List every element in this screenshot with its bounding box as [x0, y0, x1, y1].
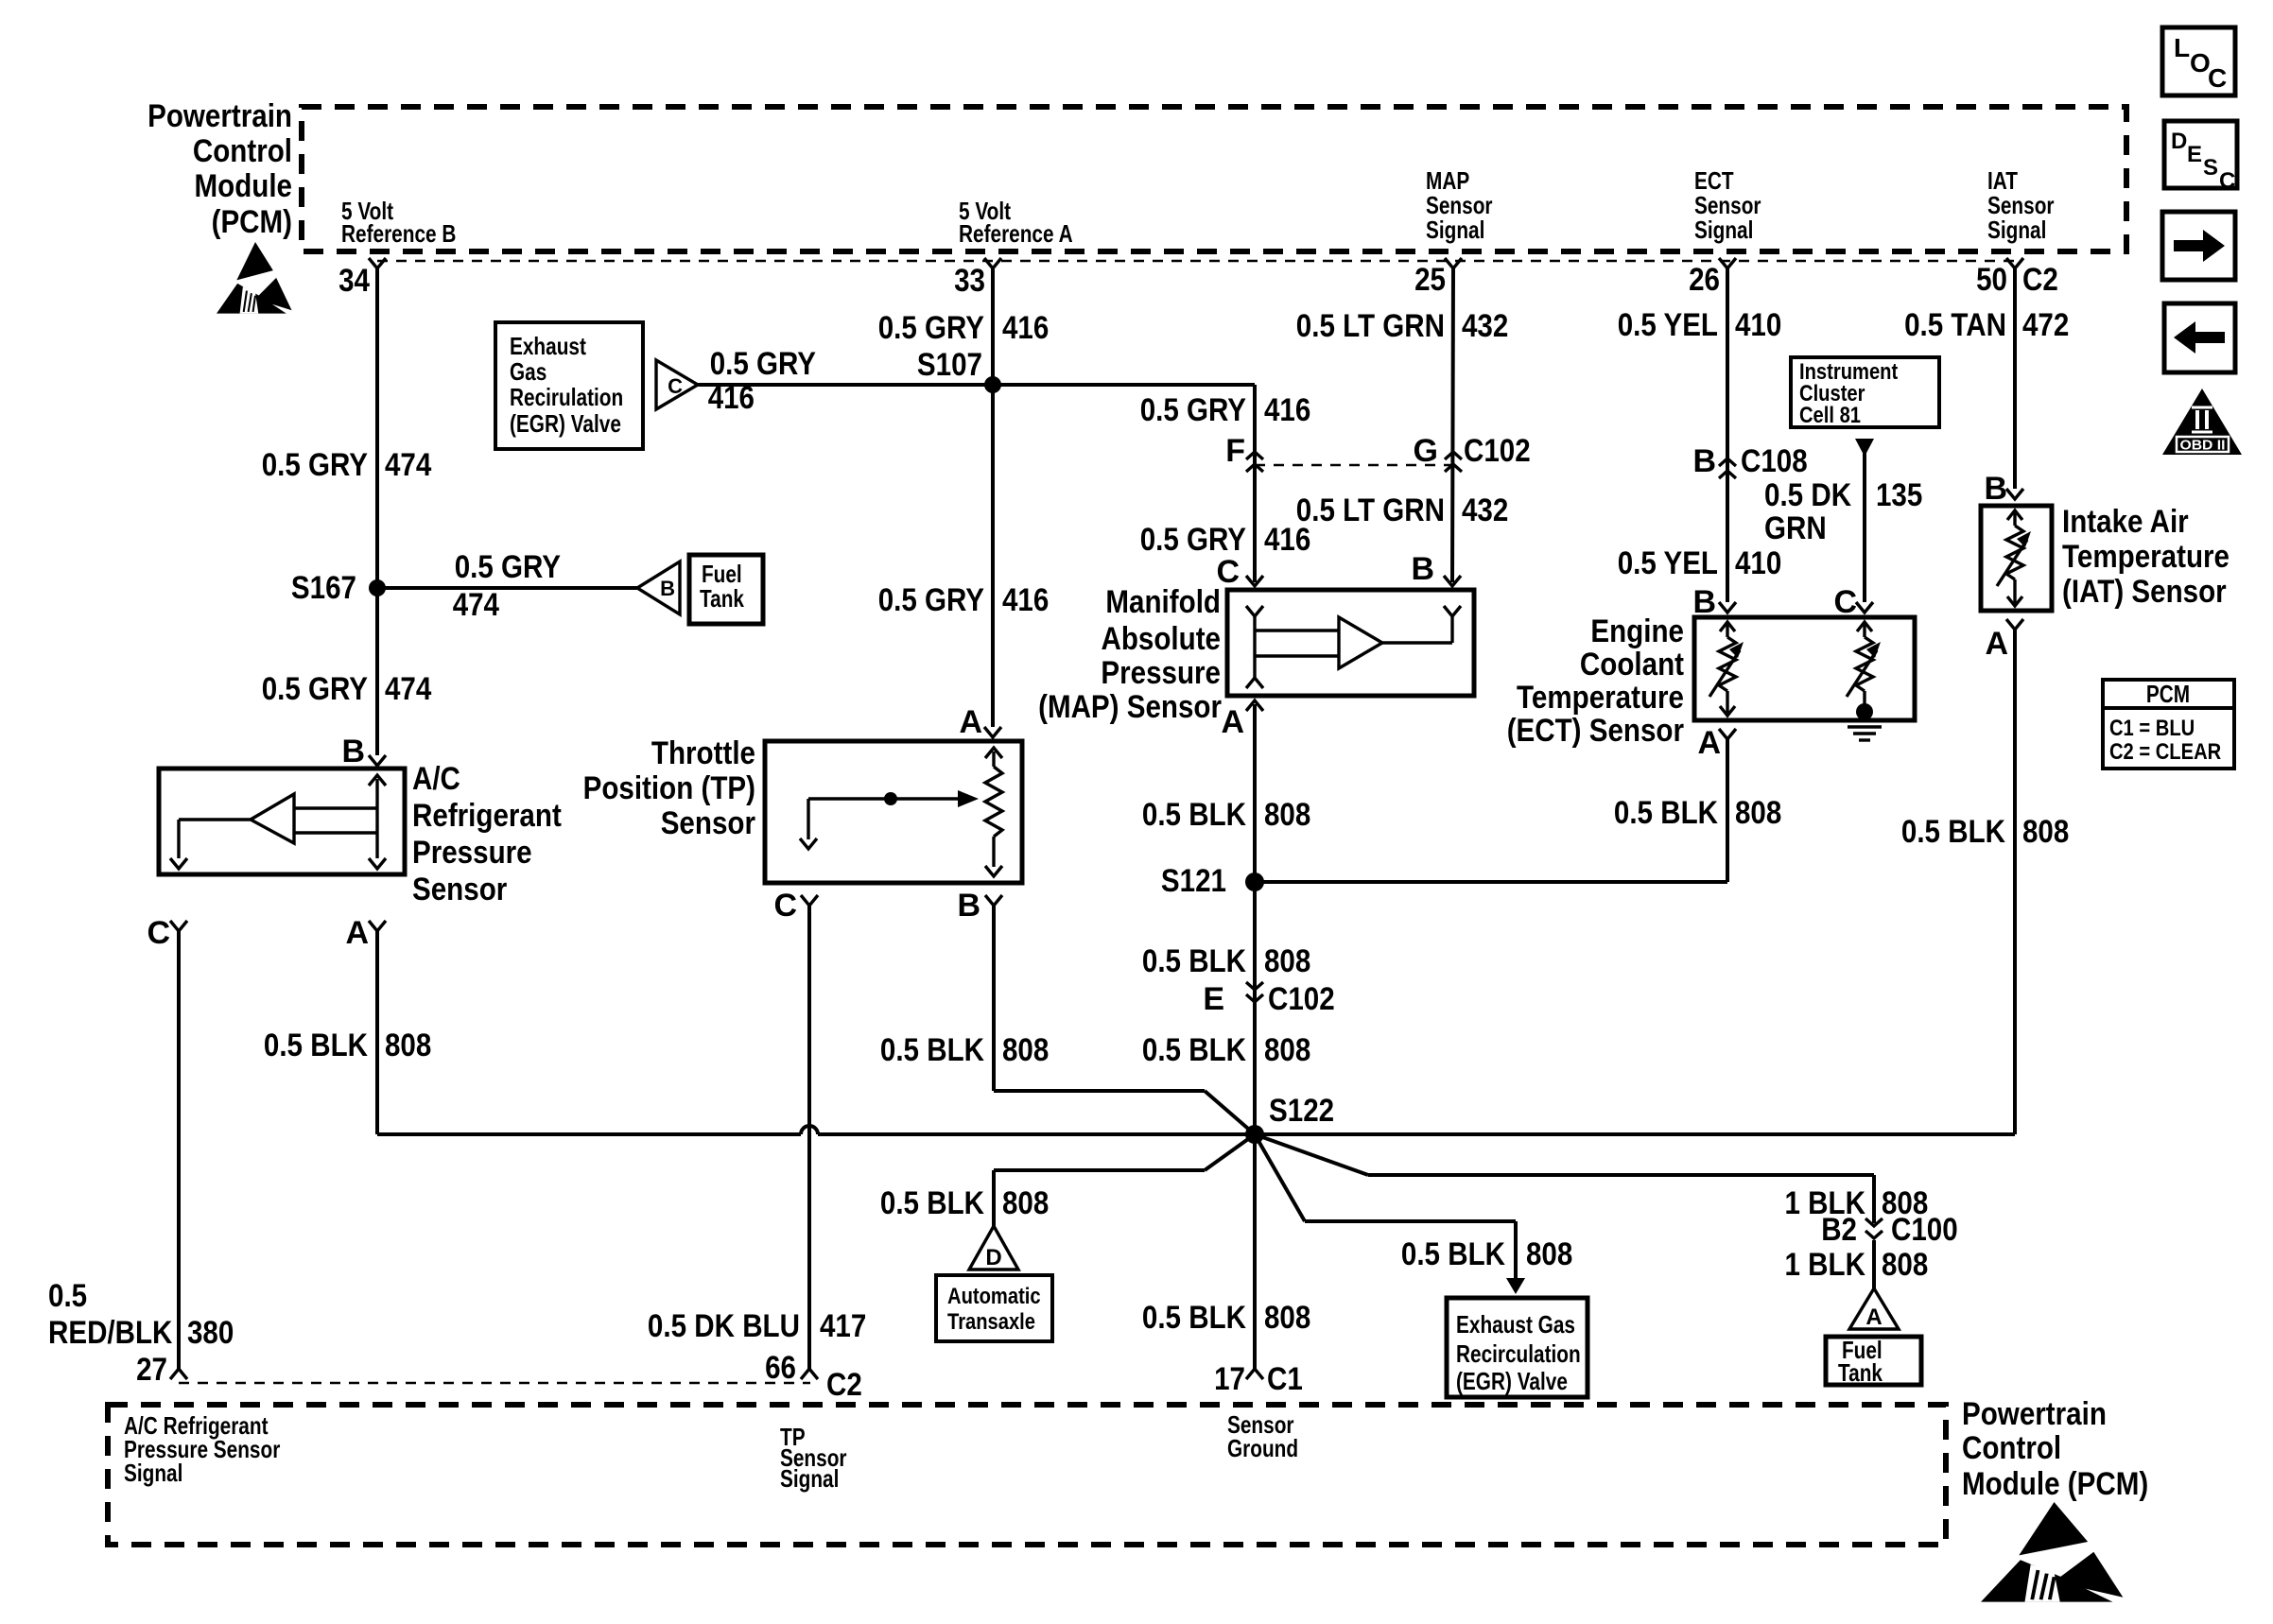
pin C TP sensor [773, 888, 818, 924]
wire S107 branch down to MAP C (0.5 GRY 416) [1253, 385, 1257, 582]
wire label 1 BLK 808 (lower) [1785, 1247, 1929, 1283]
pin 33 (PCM) [954, 258, 1001, 299]
splice S121 [1161, 863, 1264, 899]
wire S121 to ECT A [1255, 880, 1727, 884]
icon DESC box [2164, 121, 2237, 194]
splice S122 [1245, 1093, 1334, 1144]
label Powertrain Control Module (PCM) bottom-right [1962, 1396, 2148, 1502]
svg-text:Sensor: Sensor [412, 872, 507, 907]
off-page connector triangle A (fuel tank) [1849, 1288, 1899, 1330]
wire TP pin C down (0.5 DK BLU 417) [807, 906, 811, 1369]
svg-text:C100: C100 [1891, 1212, 1958, 1248]
net label ECT Sensor Signal [1694, 166, 1761, 244]
wire S122 to EGR valve (0.5 BLK 808) [1255, 1134, 1516, 1280]
svg-text:B: B [1692, 584, 1716, 620]
svg-text:66: 66 [765, 1350, 796, 1386]
connector C108 pin B [1692, 443, 1807, 479]
pin C ECT sensor [1833, 584, 1873, 620]
svg-text:GRN: GRN [1764, 510, 1827, 546]
wire TP pin B down (0.5 BLK 808) [994, 906, 1255, 1134]
wire label 0.5 BLK 808 (S122 to pin17) [1142, 1300, 1310, 1336]
svg-text:S107: S107 [917, 347, 982, 383]
svg-text:0.5 YEL: 0.5 YEL [1618, 545, 1718, 581]
svg-text:0.5 GRY: 0.5 GRY [1140, 522, 1247, 558]
A/C sensor internal circuit [170, 775, 386, 869]
Manifold Absolute Pressure (MAP) Sensor box [1227, 590, 1474, 696]
svg-text:D: D [2171, 129, 2187, 154]
svg-text:(IAT) Sensor: (IAT) Sensor [2062, 574, 2227, 610]
svg-text:0.5 TAN: 0.5 TAN [1904, 307, 2006, 343]
wire pin25 to G to MAP B (0.5 LT GRN 432) [1452, 268, 1453, 582]
svg-text:A/C: A/C [412, 761, 460, 797]
svg-text:B: B [341, 734, 365, 769]
off-page connector triangle B (fuel tank) [637, 561, 680, 614]
wire label 0.5 RED/BLK 380 [48, 1278, 234, 1351]
svg-text:C2 = CLEAR: C2 = CLEAR [2109, 739, 2221, 765]
svg-text:D: D [985, 1245, 1001, 1270]
icon back arrow box [2164, 303, 2235, 372]
connector C102 pin E [1203, 981, 1334, 1017]
svg-text:E: E [1203, 981, 1224, 1017]
Exhaust Gas Recirculation (EGR) Valve box (bottom) [1447, 1298, 1588, 1397]
pin A MAP sensor [1221, 700, 1263, 740]
svg-text:808: 808 [1264, 797, 1310, 833]
svg-text:B: B [660, 577, 675, 600]
svg-text:33: 33 [954, 263, 985, 299]
PCM top pin-row dashed line [377, 260, 2015, 262]
svg-text:B: B [1692, 443, 1716, 479]
svg-text:Engine: Engine [1590, 613, 1684, 649]
svg-text:0.5 GRY: 0.5 GRY [262, 671, 369, 707]
svg-text:Pressure: Pressure [1101, 655, 1221, 691]
wire ECT A down to S121 (0.5 BLK 808) [1726, 739, 1729, 882]
svg-text:Pressure: Pressure [412, 835, 532, 871]
Fuel Tank box (top) [689, 555, 763, 624]
pin 27 (PCM bottom) [136, 1352, 187, 1388]
wire label 0.5 DK BLU 417 [648, 1308, 866, 1344]
svg-text:0.5 BLK: 0.5 BLK [264, 1028, 368, 1063]
label Manifold Absolute Pressure (MAP) Sensor [1038, 584, 1222, 725]
svg-text:Gas: Gas [510, 357, 547, 386]
svg-text:Sensor: Sensor [661, 805, 755, 841]
svg-text:B: B [957, 888, 980, 924]
svg-text:Signal: Signal [780, 1464, 839, 1493]
svg-text:0.5 BLK: 0.5 BLK [1401, 1236, 1505, 1272]
wire 5V Reference A upper (0.5 GRY 416) [991, 268, 995, 727]
label TP Sensor Signal [780, 1423, 847, 1493]
pin 25 (PCM) [1414, 258, 1462, 298]
pin A ECT sensor [1697, 725, 1736, 761]
svg-text:A: A [1985, 626, 2008, 662]
svg-text:S: S [2203, 155, 2218, 181]
svg-text:(EGR) Valve: (EGR) Valve [1456, 1367, 1568, 1395]
svg-text:432: 432 [1462, 308, 1508, 344]
svg-text:Control: Control [193, 133, 292, 169]
svg-text:808: 808 [2022, 814, 2069, 850]
svg-text:0.5 GRY: 0.5 GRY [262, 447, 369, 483]
TP sensor potentiometer [800, 748, 1002, 876]
Automatic Transaxle box [936, 1275, 1052, 1341]
svg-text:Temperature: Temperature [1517, 680, 1684, 716]
svg-text:F: F [1225, 433, 1245, 469]
label Throttle Position (TP) Sensor [583, 735, 755, 841]
svg-text:0.5 LT GRN: 0.5 LT GRN [1296, 492, 1445, 528]
svg-text:0.5: 0.5 [48, 1278, 87, 1314]
svg-text:808: 808 [1264, 1032, 1310, 1068]
svg-text:0.5 GRY: 0.5 GRY [878, 582, 985, 618]
svg-text:432: 432 [1462, 492, 1508, 528]
svg-text:808: 808 [1526, 1236, 1572, 1272]
pin B ECT sensor [1692, 584, 1736, 620]
IAT thermistor [1997, 510, 2031, 606]
svg-text:472: 472 [2022, 307, 2069, 343]
ECT thermistor B-A [1709, 622, 1744, 716]
arrow into EGR valve [1506, 1278, 1525, 1294]
svg-text:135: 135 [1876, 477, 1922, 513]
wire label 0.5 LT GRN 432 (upper) [1296, 308, 1509, 344]
svg-text:Position (TP): Position (TP) [583, 770, 755, 806]
wire 5V Reference B (0.5 GRY 474) [375, 268, 379, 755]
svg-text:380: 380 [187, 1315, 234, 1351]
svg-text:Refrigerant: Refrigerant [412, 798, 562, 834]
wire IAT A down to main ground wire (0.5 BLK 808) [2013, 630, 2017, 1134]
icon OBD II triangle [2162, 389, 2242, 455]
svg-text:C: C [773, 888, 797, 924]
ESD static-sensitive symbol (top PCM) [217, 242, 292, 314]
net label 5 Volt Reference B [341, 197, 456, 248]
svg-text:OBD II: OBD II [2180, 439, 2226, 454]
wire label 0.5 DK GRN / 135 [1764, 477, 1922, 546]
svg-text:Transaxle: Transaxle [947, 1309, 1035, 1335]
svg-text:C1 = BLU: C1 = BLU [2109, 716, 2195, 741]
svg-text:C102: C102 [1268, 981, 1335, 1017]
svg-text:416: 416 [1002, 310, 1049, 346]
wire A/C pin A down (0.5 BLK 808) [375, 931, 379, 1134]
connector C102 in-line dashed link [1255, 464, 1453, 466]
svg-text:A: A [345, 915, 369, 951]
svg-text:50: 50 [1976, 262, 2007, 298]
svg-text:416: 416 [1264, 392, 1310, 428]
svg-text:Exhaust: Exhaust [510, 332, 586, 360]
svg-text:C: C [1833, 584, 1857, 620]
wire label 1 BLK 808 (upper) [1785, 1185, 1929, 1221]
svg-text:0.5 LT GRN: 0.5 LT GRN [1296, 308, 1445, 344]
svg-text:Signal: Signal [124, 1459, 182, 1487]
pin 50 C2 (PCM) [1976, 258, 2058, 298]
svg-text:808: 808 [1735, 795, 1781, 831]
label Sensor Ground [1227, 1410, 1298, 1462]
pin A A/C sensor [345, 915, 386, 951]
splice S167 [291, 570, 386, 606]
svg-text:0.5 GRY: 0.5 GRY [1140, 392, 1247, 428]
wire pin50 to IAT B (0.5 TAN 472) [2013, 268, 2017, 489]
wire label 0.5 GRY 416 (above S107) [878, 310, 1050, 346]
off-page connector triangle D (automatic transaxle) [969, 1226, 1018, 1270]
pin A TP sensor [959, 704, 1001, 740]
svg-text:Manifold: Manifold [1105, 584, 1221, 620]
pin 17 C1 (PCM bottom) [1214, 1361, 1303, 1397]
pin B MAP sensor [1411, 551, 1461, 587]
net label IAT Sensor Signal [1987, 166, 2055, 244]
svg-text:(ECT) Sensor: (ECT) Sensor [1507, 713, 1684, 749]
wire label 0.5 BLK 808 (EGR branch) [1401, 1236, 1572, 1272]
wire label 0.5 BLK 808 (A/C ground wire) [264, 1028, 431, 1063]
wire label 0.5 YEL 410 (upper) [1618, 307, 1782, 343]
svg-text:G: G [1414, 433, 1438, 469]
pin B A/C refrigerant pressure sensor [341, 734, 386, 769]
svg-text:Tank: Tank [1838, 1358, 1883, 1387]
wire label 0.5 GRY 474 (lower) [262, 671, 432, 707]
splice S107 [917, 347, 1001, 393]
pin C A/C sensor [147, 915, 187, 951]
svg-text:0.5 BLK: 0.5 BLK [1142, 1300, 1246, 1336]
svg-text:416: 416 [1002, 582, 1049, 618]
svg-text:A: A [1865, 1304, 1882, 1330]
svg-text:808: 808 [1002, 1185, 1049, 1221]
svg-text:25: 25 [1414, 262, 1446, 298]
svg-text:Module: Module [195, 168, 293, 204]
label Powertrain Control Module (PCM) top-left [147, 98, 292, 240]
svg-text:B: B [1411, 551, 1434, 587]
MAP sensor internal circuit [1246, 606, 1461, 688]
svg-text:Signal: Signal [1426, 216, 1484, 244]
ESD static-sensitive symbol (bottom PCM) [1981, 1502, 2123, 1602]
svg-text:Module (PCM): Module (PCM) [1962, 1466, 2148, 1502]
svg-text:808: 808 [1002, 1032, 1049, 1068]
main sensor-ground horizontal wire [377, 1126, 2015, 1134]
svg-text:Automatic: Automatic [947, 1284, 1041, 1309]
connector C102 pin F [1225, 433, 1263, 472]
net label 5 Volt Reference A [959, 197, 1073, 248]
pin B TP sensor [957, 888, 1002, 924]
svg-text:17: 17 [1214, 1361, 1245, 1397]
svg-text:410: 410 [1735, 307, 1781, 343]
wire label 0.5 BLK 808 (S121 to E) [1142, 943, 1310, 979]
icon LOC box [2162, 27, 2235, 95]
svg-text:0.5 BLK: 0.5 BLK [1142, 1032, 1246, 1068]
svg-text:Control: Control [1962, 1430, 2061, 1466]
svg-text:A: A [1221, 704, 1244, 740]
wire label 0.5 BLK 808 (IAT ground) [1901, 814, 2069, 850]
svg-text:Tank: Tank [700, 584, 744, 613]
svg-text:0.5 GRY: 0.5 GRY [710, 346, 817, 382]
svg-text:808: 808 [1264, 943, 1310, 979]
label Intake Air Temperature (IAT) Sensor [2062, 504, 2230, 610]
icon forward arrow box [2162, 212, 2235, 280]
svg-text:C102: C102 [1464, 433, 1531, 469]
Throttle Position (TP) Sensor box [765, 741, 1022, 883]
svg-text:0.5 BLK: 0.5 BLK [880, 1185, 984, 1221]
svg-text:E: E [2187, 142, 2202, 167]
svg-text:A: A [1697, 725, 1721, 761]
PCM top dashed box [302, 107, 2126, 251]
PCM bottom pin-row dashed line [179, 1382, 810, 1384]
svg-text:26: 26 [1689, 262, 1720, 298]
arrow from instrument cluster [1855, 439, 1874, 457]
svg-text:Reference A: Reference A [959, 219, 1073, 248]
svg-text:808: 808 [1264, 1300, 1310, 1336]
ECT thermistor C with ground [1847, 622, 1881, 708]
svg-text:B: B [1984, 471, 2007, 507]
svg-text:416: 416 [708, 380, 755, 416]
Fuel Tank box (bottom) [1826, 1336, 1921, 1387]
label A/C Refrigerant Pressure Sensor Signal [124, 1411, 280, 1487]
wire EGR to S107 (0.5 GRY 416) [698, 383, 1255, 387]
svg-text:34: 34 [338, 263, 370, 299]
svg-text:C2: C2 [826, 1367, 862, 1403]
wire label 0.5 BLK 808 (transaxle branch) [880, 1185, 1049, 1221]
wire label 0.5 BLK 808 (ECT ground) [1614, 795, 1781, 831]
svg-text:Powertrain: Powertrain [1962, 1396, 2107, 1432]
wire label 0.5 TAN 472 [1904, 307, 2069, 343]
wire S167 to Fuel Tank (0.5 GRY 474) [377, 586, 637, 590]
wire label 0.5 BLK 808 (E to S122) [1142, 1032, 1310, 1068]
svg-text:0.5 BLK: 0.5 BLK [1142, 797, 1246, 833]
svg-text:Powertrain: Powertrain [147, 98, 292, 134]
label A/C Refrigerant Pressure Sensor [412, 761, 562, 907]
svg-text:(PCM): (PCM) [212, 204, 292, 240]
pin 34 (PCM) [338, 258, 386, 299]
svg-text:Absolute: Absolute [1102, 621, 1222, 657]
wire label 0.5 GRY 474 (upper) [262, 447, 432, 483]
wire instrument cluster to ECT C (0.5 DK GRN 135) [1863, 452, 1866, 602]
connector C102 pin G [1414, 433, 1531, 472]
svg-text:PCM: PCM [2146, 680, 2190, 708]
svg-text:27: 27 [136, 1352, 167, 1388]
svg-text:C1: C1 [1267, 1361, 1303, 1397]
wire S122 to fuel tank (1 BLK 808) [1255, 1134, 1874, 1288]
pin B IAT sensor [1984, 471, 2023, 507]
svg-text:C2: C2 [2022, 262, 2058, 298]
svg-text:C: C [2208, 63, 2227, 93]
svg-text:808: 808 [385, 1028, 431, 1063]
wire label 0.5 BLK 808 (MAP to S121) [1142, 797, 1310, 833]
wire A/C pin C down (0.5 RED/BLK 380) [177, 931, 181, 1369]
svg-text:Cell 81: Cell 81 [1799, 403, 1861, 428]
svg-text:C: C [668, 374, 683, 398]
Intake Air Temperature (IAT) Sensor box [1981, 506, 2052, 611]
svg-text:Temperature: Temperature [2062, 539, 2230, 575]
svg-text:0.5 DK BLU: 0.5 DK BLU [648, 1308, 800, 1344]
ECT internal ground [1848, 703, 1882, 740]
svg-text:Throttle: Throttle [651, 735, 755, 771]
Instrument Cluster Cell 81 box [1791, 357, 1939, 428]
connector C100 pin B2 [1821, 1212, 1958, 1248]
wire label 0.5 GRY 416 (above MAP C) [1140, 522, 1311, 558]
wire label 0.5 GRY 416 (below S107) [878, 582, 1050, 618]
svg-text:Ground: Ground [1227, 1434, 1298, 1462]
svg-text:474: 474 [453, 587, 499, 623]
svg-text:410: 410 [1735, 545, 1781, 581]
svg-text:C: C [147, 915, 170, 951]
svg-text:Reference B: Reference B [341, 219, 456, 248]
net label MAP Sensor Signal [1426, 166, 1493, 244]
wire S122 to automatic transaxle (0.5 BLK 808) [994, 1134, 1255, 1226]
svg-text:0.5 DK: 0.5 DK [1764, 477, 1851, 513]
svg-text:Coolant: Coolant [1580, 647, 1684, 682]
Engine Coolant Temperature (ECT) Sensor box [1694, 617, 1915, 720]
svg-text:474: 474 [385, 447, 431, 483]
svg-text:Signal: Signal [1694, 216, 1753, 244]
Exhaust Gas Recirulation (EGR) Valve box (top) [495, 322, 643, 449]
wire pin26 to ECT B (0.5 YEL 410) [1726, 268, 1729, 602]
svg-text:S121: S121 [1161, 863, 1226, 899]
svg-text:Recirculation: Recirculation [1456, 1339, 1581, 1368]
svg-text:1 BLK: 1 BLK [1785, 1247, 1866, 1283]
wire label 0.5 YEL 410 (lower) [1618, 545, 1782, 581]
pin A IAT sensor [1985, 619, 2023, 662]
pin 26 (PCM) [1689, 258, 1736, 298]
wire label 0.5 LT GRN 432 (lower) [1296, 492, 1509, 528]
svg-text:808: 808 [1882, 1247, 1928, 1283]
wire label 0.5 GRY / 474 (fuel tank branch) [453, 549, 562, 623]
svg-text:S167: S167 [291, 570, 356, 606]
A/C Refrigerant Pressure Sensor box [159, 769, 405, 874]
svg-text:RED/BLK: RED/BLK [48, 1315, 173, 1351]
svg-text:0.5 GRY: 0.5 GRY [455, 549, 562, 585]
svg-text:Signal: Signal [1987, 216, 2046, 244]
svg-text:0.5 BLK: 0.5 BLK [1142, 943, 1246, 979]
PCM connector legend box [2103, 680, 2234, 769]
svg-text:B2: B2 [1821, 1212, 1857, 1248]
svg-text:417: 417 [820, 1308, 866, 1344]
wire label 0.5 BLK 808 (TP ground) [880, 1032, 1049, 1068]
svg-text:0.5 BLK: 0.5 BLK [1901, 814, 2005, 850]
PCM bottom dashed box [108, 1405, 1946, 1545]
svg-text:C: C [2219, 168, 2235, 194]
svg-text:(MAP) Sensor: (MAP) Sensor [1038, 689, 1222, 725]
svg-text:0.5 YEL: 0.5 YEL [1618, 307, 1718, 343]
svg-text:S122: S122 [1269, 1093, 1334, 1129]
wire label 0.5 GRY / 416 (EGR branch) [708, 346, 817, 416]
pin 66 C2 (PCM bottom) [765, 1350, 862, 1403]
wire MAP A / sensor ground main (0.5 BLK 808) [1253, 704, 1257, 1369]
svg-text:0.5 BLK: 0.5 BLK [880, 1032, 984, 1068]
svg-text:0.5 GRY: 0.5 GRY [878, 310, 985, 346]
svg-text:Intake Air: Intake Air [2062, 504, 2189, 540]
svg-text:A: A [959, 704, 982, 740]
pin C MAP sensor [1216, 554, 1263, 590]
svg-text:0.5 BLK: 0.5 BLK [1614, 795, 1718, 831]
off-page connector triangle C (EGR valve) [656, 360, 698, 409]
wire label 0.5 GRY 416 (above C102 F) [1140, 392, 1311, 428]
label Engine Coolant Temperature (ECT) Sensor [1507, 613, 1684, 749]
svg-text:Recirulation: Recirulation [510, 383, 623, 411]
svg-text:474: 474 [385, 671, 431, 707]
svg-text:(EGR) Valve: (EGR) Valve [510, 409, 621, 438]
svg-text:Exhaust Gas: Exhaust Gas [1456, 1310, 1575, 1339]
svg-text:L: L [2174, 33, 2190, 62]
svg-text:C108: C108 [1741, 443, 1808, 479]
